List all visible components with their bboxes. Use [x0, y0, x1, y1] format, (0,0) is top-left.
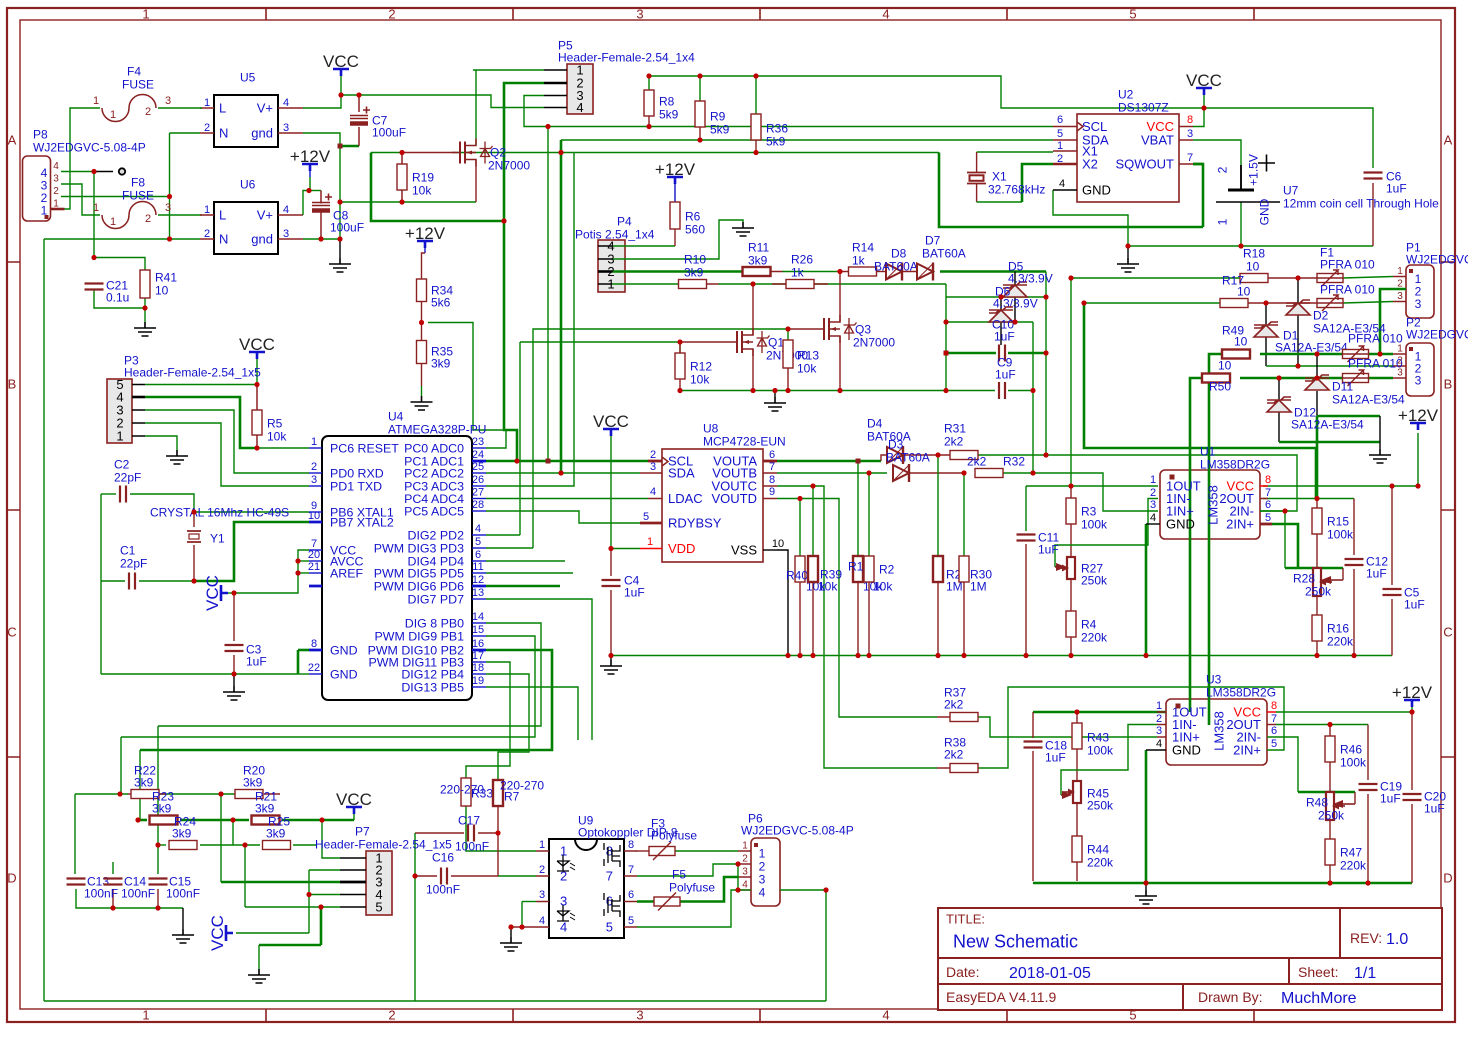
svg-text:PWM DIG3 PD3: PWM DIG3 PD3	[374, 541, 464, 555]
svg-text:3k9: 3k9	[172, 826, 192, 840]
svg-text:100nF: 100nF	[84, 886, 118, 900]
svg-text:2: 2	[1057, 153, 1063, 165]
wire gnd stem C3	[233, 674, 235, 686]
wire P8.4 down to C21	[93, 172, 95, 258]
svg-text:R33: R33	[471, 786, 493, 800]
wire pin19 drop	[486, 687, 578, 740]
svg-text:2: 2	[1156, 713, 1162, 725]
svg-text:BAT60A: BAT60A	[886, 450, 930, 464]
transistor Q1	[737, 331, 742, 353]
wire D1 D2 out row to P2.2	[1266, 365, 1393, 367]
svg-text:1: 1	[539, 839, 545, 851]
svg-text:R40: R40	[786, 568, 808, 582]
capacitor C3	[225, 645, 244, 651]
wire R48 wiper loop	[1354, 792, 1356, 804]
capacitor C16	[441, 868, 447, 885]
svg-text:1: 1	[1215, 218, 1229, 225]
wire U8 left leads	[640, 461, 662, 523]
svg-text:220k: 220k	[1081, 630, 1108, 644]
svg-text:4: 4	[283, 97, 289, 109]
svg-text:X1: X1	[992, 169, 1007, 183]
svg-text:1: 1	[742, 841, 748, 852]
svg-text:8: 8	[628, 839, 634, 851]
svg-text:2: 2	[742, 854, 748, 865]
svg-text:1: 1	[1156, 700, 1162, 712]
wire DIG7 stub pin13	[486, 599, 592, 740]
svg-text:PWM DIG6 PD6: PWM DIG6 PD6	[374, 579, 464, 593]
wire SQWOUT rail y152.5 drop R36	[755, 140, 757, 153]
wire C2 row to XTAL1	[101, 493, 116, 495]
transistor Q3	[824, 318, 829, 340]
svg-text:10: 10	[1234, 334, 1248, 348]
wire 1OUT thick row U3	[1033, 711, 1166, 714]
capacitor C11	[1017, 535, 1036, 541]
VCC net stem top-left	[340, 76, 342, 95]
wire R15 R28 thick node row	[1285, 567, 1343, 570]
svg-text:U8: U8	[703, 421, 719, 435]
wire C11 column	[1025, 486, 1027, 531]
svg-text:MuchMore: MuchMore	[1281, 990, 1357, 1007]
wire R37 row	[963, 717, 1157, 737]
svg-text:4: 4	[882, 1008, 889, 1023]
svg-text:1: 1	[142, 1008, 149, 1023]
svg-text:2: 2	[539, 864, 545, 876]
wire P2 leads	[1393, 354, 1406, 378]
wire R41 bottom to ground	[144, 298, 146, 322]
wire opto pin5 to P6.4	[637, 890, 738, 927]
svg-text:Header-Female-2.54_1x5: Header-Female-2.54_1x5	[124, 365, 261, 379]
wire 2OUT row U3	[1276, 724, 1368, 726]
svg-text:6: 6	[769, 449, 775, 461]
svg-text:5: 5	[1057, 128, 1063, 140]
svg-text:100k: 100k	[1340, 755, 1367, 769]
wire R34 R35 link	[421, 302, 423, 341]
svg-text:3: 3	[283, 122, 289, 134]
svg-text:1: 1	[204, 97, 210, 109]
wire R50 row thick	[1240, 377, 1342, 380]
wire col x121	[120, 737, 122, 794]
svg-text:DIG13 PB5: DIG13 PB5	[401, 680, 464, 694]
wire R18 right to F1	[1267, 277, 1317, 279]
capacitor C6	[1364, 173, 1383, 179]
resistor R32	[975, 469, 1003, 478]
svg-text:DS1307Z: DS1307Z	[1118, 100, 1169, 114]
U4 pin leads	[309, 447, 322, 449]
wire R28 R16 chain	[1316, 596, 1318, 615]
svg-text:U2: U2	[1118, 87, 1134, 101]
wire VOUTC row to R38 riser	[777, 486, 937, 768]
svg-text:3: 3	[1397, 291, 1403, 302]
svg-text:4: 4	[1059, 178, 1065, 190]
wire Y1 bottom lead	[193, 545, 195, 581]
svg-text:250k: 250k	[1305, 584, 1332, 598]
wire DIG3 stub pin5	[486, 547, 533, 549]
svg-text:1uF: 1uF	[624, 585, 645, 599]
svg-text:R19: R19	[412, 170, 434, 184]
svg-text:560: 560	[685, 222, 705, 236]
svg-text:2: 2	[204, 228, 210, 240]
wire U5 N lead	[170, 132, 201, 134]
wire opto pin7 to P6.2	[637, 864, 738, 876]
wire P7 gnd drop thick	[320, 907, 323, 945]
svg-text:PFRA 010: PFRA 010	[1348, 331, 1403, 345]
wire gnd rail y246	[1128, 245, 1373, 247]
svg-text:BAT60A: BAT60A	[874, 259, 918, 273]
resistor R2	[864, 556, 874, 582]
svg-text:14: 14	[472, 611, 484, 623]
svg-text:6: 6	[1057, 114, 1063, 126]
svg-text:220k: 220k	[1087, 855, 1114, 869]
wire P3.1 to ground	[145, 436, 177, 450]
resistor R22	[131, 790, 159, 799]
svg-text:10: 10	[772, 538, 784, 550]
connector P2 body	[1406, 343, 1434, 396]
header P3 pin leads	[132, 385, 145, 437]
svg-text:DIG2 PD2: DIG2 PD2	[408, 528, 465, 542]
svg-text:BAT60A: BAT60A	[922, 246, 966, 260]
wire VCC rot to C3 node	[227, 592, 234, 594]
svg-text:12: 12	[472, 574, 484, 586]
svg-text:1k: 1k	[791, 265, 805, 279]
svg-text:R18: R18	[1243, 246, 1265, 260]
wire VCC col x611	[610, 429, 612, 549]
wire R35 bottom	[421, 364, 423, 387]
junction dots	[91, 169, 96, 174]
wire +12V stem U3	[1411, 702, 1413, 712]
svg-text:1: 1	[204, 204, 210, 216]
svg-text:DIG7 PD7: DIG7 PD7	[408, 592, 465, 606]
svg-text:25: 25	[472, 461, 484, 473]
resistor R40	[795, 556, 805, 582]
wire C16 row	[415, 875, 437, 877]
svg-text:SA12A-E3/54: SA12A-E3/54	[1332, 392, 1405, 406]
svg-text:PFRA 010: PFRA 010	[1348, 356, 1403, 370]
wire P7.3 thick row	[221, 881, 340, 884]
svg-text:1: 1	[1397, 266, 1403, 277]
wire C15 col	[157, 845, 159, 874]
resistor R4	[1066, 611, 1076, 637]
resistor R20	[235, 790, 263, 799]
svg-text:1: 1	[1057, 140, 1063, 152]
fuse F7	[1343, 374, 1369, 383]
svg-text:F5: F5	[672, 867, 686, 881]
svg-text:U5: U5	[240, 70, 256, 84]
wire R1 top tap	[857, 461, 859, 556]
resistor R19	[397, 164, 407, 190]
svg-text:6: 6	[1271, 725, 1277, 737]
svg-text:Q1: Q1	[768, 335, 784, 349]
wire opto pin6 to F5	[637, 900, 654, 903]
svg-text:LM358DR2G: LM358DR2G	[1206, 685, 1276, 699]
svg-text:R50: R50	[1209, 379, 1231, 393]
wire VOUTB row	[777, 472, 887, 474]
wire P4.1 to R10	[612, 283, 679, 285]
svg-text:1.0: 1.0	[1386, 931, 1408, 948]
fuse F1	[1317, 274, 1343, 283]
svg-text:3k9: 3k9	[243, 775, 263, 789]
wire VCC flag to R5	[256, 353, 258, 385]
svg-text:8: 8	[1265, 474, 1271, 486]
svg-text:L: L	[219, 208, 226, 223]
resistor R29	[933, 556, 943, 582]
wire R9 bottom	[699, 127, 701, 140]
resistor R24	[169, 841, 197, 850]
diode D4	[887, 447, 903, 463]
zener D5	[989, 310, 1013, 322]
ground sym U6	[329, 258, 351, 272]
wire P5 pin2 thick down x517	[504, 83, 544, 461]
wire R14 to D8	[876, 271, 887, 273]
wire row820 thick	[138, 819, 147, 822]
wire P4.2 to R11 thick	[612, 270, 743, 273]
wire P1.2 link down	[1380, 289, 1406, 354]
trimmer R27	[1067, 557, 1075, 579]
svg-text:A: A	[1444, 133, 1453, 148]
svg-text:4: 4	[475, 523, 481, 535]
wire P6 right drop to bottom rail	[825, 890, 827, 1001]
wire row794	[75, 793, 128, 795]
ground sym P7	[248, 969, 270, 983]
wire P3.2 to TXD	[145, 423, 309, 486]
svg-text:3: 3	[759, 872, 766, 886]
svg-text:ATMEGA328P-PU: ATMEGA328P-PU	[388, 422, 486, 436]
wire opto pin4 row	[511, 926, 536, 928]
wire R12 bottom	[679, 379, 681, 391]
wire U2 SQWOUT lead	[1193, 163, 1203, 166]
svg-text:1uF: 1uF	[1386, 181, 1407, 195]
U9 internal fet bottom	[604, 893, 620, 917]
svg-text:3: 3	[311, 474, 317, 486]
wire D7 out thick	[940, 270, 1046, 273]
resistor R36	[751, 114, 761, 140]
wire source rail y390.5	[680, 390, 946, 392]
svg-text:MCP4728-EUN: MCP4728-EUN	[703, 434, 786, 448]
svg-text:Date:: Date:	[946, 964, 979, 980]
svg-text:4: 4	[560, 920, 567, 935]
wire D2 column	[1297, 278, 1299, 303]
wire opto pin3 gnd	[522, 901, 536, 903]
wire Q2 drain	[475, 160, 477, 202]
svg-text:5k6: 5k6	[431, 295, 451, 309]
svg-text:R16: R16	[1327, 621, 1349, 635]
svg-text:1k: 1k	[852, 253, 866, 267]
wire R2 top tap	[868, 473, 870, 556]
wire F3 to P6.1	[675, 850, 738, 852]
svg-text:Polyfuse: Polyfuse	[651, 828, 697, 842]
resistor R6	[670, 202, 680, 229]
P7 pin leads	[340, 858, 366, 907]
svg-text:3k9: 3k9	[152, 801, 172, 815]
svg-text:100nF: 100nF	[455, 839, 489, 853]
wire F5 to P6.3 thick	[680, 877, 738, 902]
svg-text:1: 1	[110, 109, 116, 121]
wire Q1 drain riser	[752, 284, 754, 335]
wire Y1 top lead	[193, 512, 195, 527]
wire P5 pin1	[473, 69, 544, 71]
capacitor C9	[999, 382, 1005, 399]
wire row303 R17	[1084, 302, 1221, 304]
svg-text:2: 2	[145, 213, 151, 225]
zener D12	[1267, 400, 1291, 412]
wire VCC +12V row y486	[1263, 485, 1418, 487]
header P4 body	[598, 240, 625, 292]
svg-text:U4: U4	[388, 409, 404, 423]
svg-text:Potis 2.54_1x4: Potis 2.54_1x4	[575, 227, 655, 241]
svg-text:WJ2EDGVC: WJ2EDGVC	[1406, 327, 1468, 341]
wire R17 right to F2	[1247, 302, 1317, 304]
diode D3	[893, 465, 909, 481]
svg-text:5: 5	[1265, 512, 1271, 524]
resistor R18	[1240, 274, 1268, 283]
svg-text:R9: R9	[710, 109, 726, 123]
wire VCC flag row820	[353, 809, 355, 820]
fuse F2	[1317, 299, 1343, 308]
resistor R23 bold	[150, 816, 178, 825]
capacitor C1	[129, 573, 135, 590]
VCC rail to C7 and P5.4	[341, 95, 544, 108]
capacitor C4	[602, 580, 621, 586]
wire C16 left drop	[414, 876, 416, 1001]
svg-text:3: 3	[1187, 128, 1193, 140]
svg-text:2IN+: 2IN+	[1233, 743, 1261, 758]
svg-text:C2: C2	[114, 457, 130, 471]
svg-text:LM358: LM358	[1212, 711, 1227, 751]
resistor R41	[140, 270, 150, 298]
svg-text:5k9: 5k9	[710, 122, 730, 136]
wire C1 row	[101, 580, 125, 582]
ground sym C3	[223, 686, 245, 700]
svg-text:R46: R46	[1340, 742, 1362, 756]
svg-text:REV:: REV:	[1350, 930, 1382, 946]
svg-text:2: 2	[1150, 487, 1156, 499]
svg-text:7: 7	[606, 869, 613, 884]
wire C9 row y390.5	[946, 390, 995, 392]
wire C20 column	[1411, 712, 1413, 790]
svg-text:+1.5V: +1.5V	[1246, 154, 1260, 186]
wire PC1 SCL row thick	[486, 460, 648, 463]
wire D11 gnd row	[1317, 415, 1380, 418]
svg-text:LM358: LM358	[1206, 485, 1221, 525]
battery U7	[1228, 189, 1254, 192]
wire resistor bottoms to rail	[799, 582, 801, 656]
svg-text:1uF: 1uF	[1380, 791, 1401, 805]
resistor R30	[959, 556, 969, 582]
svg-text:Q3: Q3	[855, 322, 871, 336]
wire R13 bottom	[787, 368, 789, 391]
svg-text:R12: R12	[690, 359, 712, 373]
wire C21 R41 top	[94, 258, 145, 271]
trimmer R28	[1313, 568, 1321, 596]
wire VCC rot2 stem	[236, 932, 309, 934]
wire C8 leads	[320, 191, 322, 240]
polyfuse F3	[649, 847, 675, 856]
wire P8 pin1 to F4	[64, 108, 100, 209]
wire Q1 gate rail	[520, 342, 680, 353]
svg-text:4: 4	[742, 880, 748, 891]
wire R36 top	[755, 76, 757, 114]
svg-text:GND: GND	[1172, 743, 1201, 758]
svg-text:Header-Female-2.54_1x5: Header-Female-2.54_1x5	[315, 837, 452, 851]
svg-text:X2: X2	[1082, 157, 1098, 172]
big left vertical wire	[43, 239, 45, 1001]
wire D6 zener column	[1014, 272, 1016, 286]
diode D8	[886, 264, 902, 280]
resistor R50 bold	[1202, 374, 1230, 383]
resistor R7 bold	[493, 780, 503, 806]
svg-text:23: 23	[472, 436, 484, 448]
svg-text:1uF: 1uF	[1404, 597, 1425, 611]
wire big analog gnd rail y655.5	[611, 655, 1392, 657]
svg-text:DIG12 PB4: DIG12 PB4	[401, 667, 464, 681]
wire x1033 column	[1032, 322, 1034, 473]
wire SDA drop x561	[560, 140, 563, 473]
svg-text:4: 4	[1156, 738, 1162, 750]
svg-text:U6: U6	[240, 177, 256, 191]
svg-text:10: 10	[1218, 358, 1232, 372]
svg-text:4: 4	[283, 204, 289, 216]
wire Q1 source	[752, 349, 754, 391]
capacitor C2	[120, 486, 126, 503]
wire C19 column	[1367, 725, 1369, 781]
svg-text:8: 8	[1187, 114, 1193, 126]
svg-text:GND: GND	[1166, 517, 1195, 532]
resistor R15	[1312, 508, 1322, 534]
polyfuse F5	[654, 897, 680, 906]
svg-text:3k9: 3k9	[266, 826, 286, 840]
wire col x75 to C13	[74, 794, 76, 874]
svg-text:32.768kHz: 32.768kHz	[988, 182, 1045, 196]
svg-text:F8: F8	[131, 175, 145, 189]
capacitor C8	[325, 194, 332, 201]
svg-text:21: 21	[308, 561, 320, 573]
wire U3 VCC row	[1276, 711, 1412, 713]
svg-text:3: 3	[53, 174, 59, 185]
wire R5 leads	[256, 385, 258, 448]
svg-text:3: 3	[1397, 368, 1403, 379]
svg-text:VDD: VDD	[668, 541, 695, 556]
wire pin16 to row750 thick	[140, 650, 552, 750]
svg-text:TITLE:: TITLE:	[946, 912, 985, 927]
svg-text:220k: 220k	[1340, 858, 1367, 872]
svg-text:V+: V+	[257, 208, 273, 223]
wire x340 down to U6 rail	[339, 146, 341, 239]
resistor R13	[783, 340, 793, 368]
svg-text:Drawn By:: Drawn By:	[1198, 989, 1263, 1005]
wire 1OUT row y486	[1026, 485, 1158, 487]
wire gnd row 674	[101, 673, 298, 675]
svg-text:18: 18	[472, 662, 484, 674]
wire P6.4 row out right	[738, 889, 751, 891]
svg-text:1: 1	[53, 199, 59, 210]
wire left column x101	[100, 494, 102, 674]
svg-text:gnd: gnd	[251, 232, 273, 247]
IC U8 body	[662, 449, 763, 562]
svg-text:VSS: VSS	[731, 543, 757, 558]
wire U3 bottom rail thick	[1033, 882, 1412, 885]
wire R45 wiper to 1IN-	[1061, 725, 1157, 796]
zener D6	[1003, 285, 1027, 297]
open terminal	[119, 168, 125, 174]
svg-text:WJ2EDGVC-5.08-4P: WJ2EDGVC-5.08-4P	[33, 140, 146, 154]
svg-text:250k: 250k	[1318, 808, 1345, 822]
svg-text:1uF: 1uF	[995, 367, 1016, 381]
svg-text:27: 27	[472, 486, 484, 498]
svg-text:10: 10	[1237, 284, 1251, 298]
wire pin6 drop U3	[1267, 737, 1298, 792]
wire R49 left drop x1209	[1209, 354, 1222, 725]
svg-text:A: A	[8, 133, 17, 148]
wire D1 column	[1265, 303, 1267, 325]
